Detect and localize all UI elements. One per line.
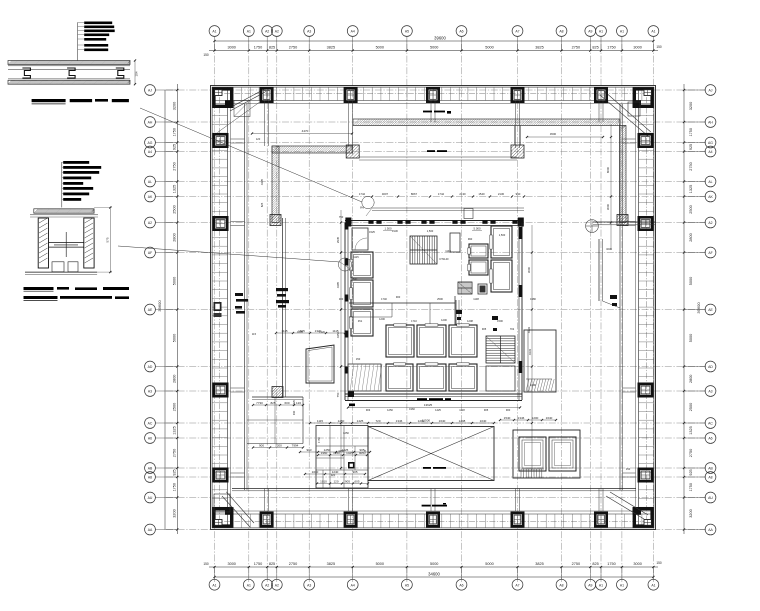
svg-text:2800: 2800 bbox=[689, 233, 693, 241]
svg-text:1208: 1208 bbox=[467, 319, 473, 323]
X-crossed opening bbox=[368, 427, 494, 481]
svg-text:1200: 1200 bbox=[532, 416, 539, 420]
core bottom wall label bars bbox=[417, 398, 427, 400]
left axis bubbles bbox=[155, 89, 177, 91]
svg-text:5000: 5000 bbox=[376, 46, 384, 50]
svg-text:AB: AB bbox=[708, 467, 713, 471]
detail 1 wall section bbox=[8, 61, 130, 65]
svg-text:4435: 4435 bbox=[260, 178, 264, 185]
svg-text:3200: 3200 bbox=[689, 509, 693, 517]
svg-text:825: 825 bbox=[260, 202, 264, 207]
left detail dimension line bbox=[176, 84, 178, 534]
svg-text:2800: 2800 bbox=[689, 375, 693, 383]
svg-text:903: 903 bbox=[366, 408, 371, 412]
svg-text:120: 120 bbox=[333, 479, 338, 483]
svg-text:900: 900 bbox=[396, 295, 401, 299]
detail 2 notes text block bbox=[61, 162, 63, 207]
detail 1 clips bbox=[22, 68, 30, 78]
corner brace SE bbox=[610, 492, 648, 515]
svg-text:5000: 5000 bbox=[430, 562, 438, 566]
svg-text:AU: AU bbox=[148, 496, 153, 500]
svg-text:AH: AH bbox=[708, 121, 713, 125]
svg-text:1138: 1138 bbox=[473, 297, 479, 301]
svg-text:A8: A8 bbox=[148, 476, 152, 480]
detail 2 dim 575 bbox=[109, 207, 111, 272]
svg-text:1200: 1200 bbox=[379, 317, 385, 321]
dim row mid-left bbox=[275, 332, 277, 334]
bottom corridor wall bbox=[232, 488, 636, 490]
elevator bank row A bbox=[386, 325, 414, 357]
svg-text:2750: 2750 bbox=[173, 449, 177, 457]
svg-text:A1: A1 bbox=[651, 30, 655, 34]
svg-text:4607: 4607 bbox=[382, 192, 389, 196]
svg-text:AD: AD bbox=[708, 365, 713, 369]
bottom band columns bbox=[261, 513, 272, 526]
room upper-left of core bbox=[352, 228, 368, 250]
svg-text:3000: 3000 bbox=[633, 46, 641, 50]
bottom detail dimension line bbox=[209, 566, 658, 568]
svg-text:825: 825 bbox=[269, 562, 275, 566]
svg-text:A1: A1 bbox=[620, 30, 624, 34]
svg-text:AH: AH bbox=[148, 121, 153, 125]
svg-text:1250: 1250 bbox=[387, 408, 393, 412]
svg-text:1325: 1325 bbox=[173, 426, 177, 434]
svg-text:925: 925 bbox=[173, 469, 177, 475]
left overall 39600 bbox=[164, 90, 166, 530]
svg-text:1115: 1115 bbox=[317, 419, 324, 423]
svg-text:A2: A2 bbox=[265, 30, 269, 34]
firewall column at A5-line bbox=[511, 145, 524, 158]
svg-text:A6: A6 bbox=[459, 30, 463, 34]
rooms group west bbox=[252, 396, 303, 398]
svg-text:A6: A6 bbox=[459, 583, 463, 587]
vent shafts pair bbox=[469, 244, 488, 258]
svg-text:2500: 2500 bbox=[173, 403, 177, 411]
svg-text:2750: 2750 bbox=[572, 562, 580, 566]
svg-text:1200: 1200 bbox=[275, 443, 282, 447]
detail 1 leader and notes text block bbox=[77, 22, 79, 60]
svg-text:AJ: AJ bbox=[709, 89, 713, 93]
svg-text:2945: 2945 bbox=[336, 236, 340, 243]
svg-text:A1: A1 bbox=[212, 583, 216, 587]
svg-text:1750: 1750 bbox=[173, 128, 177, 136]
svg-text:34600: 34600 bbox=[428, 572, 440, 577]
column connectors from top band bbox=[264, 101, 266, 147]
svg-text:1640: 1640 bbox=[439, 419, 446, 423]
svg-text:2800: 2800 bbox=[173, 375, 177, 383]
wall to right band at AF bbox=[593, 221, 655, 223]
core top wall end blocks bbox=[345, 218, 351, 227]
svg-text:925: 925 bbox=[689, 469, 693, 475]
vertical dim column right of core bbox=[531, 225, 533, 470]
bottom band mullion rungs bbox=[232, 514, 234, 528]
svg-text:903: 903 bbox=[306, 448, 311, 452]
svg-text:1710: 1710 bbox=[411, 319, 417, 323]
svg-text:AL: AL bbox=[148, 180, 152, 184]
firewall right vertical bbox=[620, 126, 627, 223]
perimeter band centerlines bbox=[214, 93, 652, 95]
svg-text:150: 150 bbox=[356, 357, 361, 361]
svg-text:451: 451 bbox=[358, 319, 363, 323]
top band mullion rungs bbox=[232, 87, 234, 100]
detail 2 center mark bbox=[65, 232, 67, 257]
svg-text:5000: 5000 bbox=[485, 46, 493, 50]
svg-text:A6: A6 bbox=[708, 437, 712, 441]
svg-text:AF: AF bbox=[708, 251, 712, 255]
svg-text:AA: AA bbox=[148, 528, 153, 532]
firewall L-wall horizontal bbox=[272, 146, 353, 153]
vertical dim 8000 right area bbox=[610, 124, 612, 250]
room label bars top area bbox=[423, 111, 432, 113]
black marks right duct bbox=[610, 295, 617, 299]
svg-text:A3: A3 bbox=[307, 583, 311, 587]
svg-text:575: 575 bbox=[106, 237, 110, 242]
svg-text:104: 104 bbox=[135, 71, 139, 76]
detail 2 top slab bbox=[34, 209, 94, 213]
svg-text:A7: A7 bbox=[515, 30, 519, 34]
dims lower-left rooms bbox=[317, 454, 319, 456]
core bottom wall bbox=[345, 393, 522, 395]
top detail dimension line bbox=[209, 50, 658, 52]
svg-text:4385: 4385 bbox=[336, 281, 340, 288]
svg-text:920: 920 bbox=[331, 473, 336, 477]
svg-text:A2: A2 bbox=[275, 583, 279, 587]
svg-text:150: 150 bbox=[626, 467, 631, 471]
svg-text:1010: 1010 bbox=[320, 479, 327, 483]
stair ST1 bbox=[410, 236, 437, 264]
svg-text:8000: 8000 bbox=[606, 166, 610, 173]
svg-text:1208: 1208 bbox=[459, 419, 466, 423]
svg-text:905: 905 bbox=[482, 327, 487, 331]
elevator bank row B bbox=[386, 364, 413, 391]
svg-text:A3: A3 bbox=[307, 30, 311, 34]
svg-text:1750: 1750 bbox=[254, 46, 262, 50]
detail 1 caption bbox=[32, 99, 66, 102]
right elevator 2 bbox=[491, 260, 512, 292]
dim 4500 right area bbox=[527, 136, 603, 138]
svg-text:1750: 1750 bbox=[689, 128, 693, 136]
svg-text:3000: 3000 bbox=[227, 562, 235, 566]
svg-text:925: 925 bbox=[689, 144, 693, 150]
svg-text:AG: AG bbox=[708, 141, 713, 145]
svg-text:AK: AK bbox=[708, 195, 713, 199]
svg-text:A4: A4 bbox=[708, 150, 712, 154]
svg-text:5000: 5000 bbox=[689, 334, 693, 342]
svg-text:A1: A1 bbox=[247, 583, 251, 587]
svg-text:720: 720 bbox=[375, 419, 380, 423]
svg-text:1740: 1740 bbox=[381, 297, 387, 301]
hatch strip in right room bbox=[526, 379, 529, 391]
svg-text:A9: A9 bbox=[588, 583, 592, 587]
leader line from detail 2 bbox=[118, 246, 340, 262]
svg-text:4333: 4333 bbox=[527, 326, 531, 333]
left band columns bbox=[214, 134, 227, 146]
right band mullion rungs bbox=[639, 106, 654, 108]
corner room NE bbox=[628, 102, 640, 116]
svg-text:825: 825 bbox=[270, 401, 275, 405]
svg-text:1425: 1425 bbox=[435, 408, 441, 412]
leader balloon top bbox=[362, 196, 374, 208]
svg-text:AB: AB bbox=[148, 467, 153, 471]
top axis bubbles bbox=[214, 36, 216, 50]
svg-text:150: 150 bbox=[203, 562, 209, 566]
svg-text:2750: 2750 bbox=[173, 162, 177, 170]
svg-text:990: 990 bbox=[468, 237, 473, 241]
svg-text:1250: 1250 bbox=[338, 419, 345, 423]
svg-text:150: 150 bbox=[203, 53, 209, 57]
dim row above core bbox=[351, 195, 353, 197]
svg-text:1425: 1425 bbox=[357, 419, 364, 423]
trapezoid shaft bbox=[306, 345, 334, 383]
svg-text:750: 750 bbox=[336, 392, 340, 397]
core top wall bbox=[345, 220, 522, 222]
bottom overall dimension line 34600 bbox=[215, 576, 654, 578]
duct wall right area bbox=[598, 239, 600, 301]
svg-text:A8: A8 bbox=[559, 30, 563, 34]
dim 13625 below core bbox=[348, 407, 520, 409]
left band service block bbox=[214, 302, 222, 311]
machine room block bbox=[513, 430, 580, 478]
svg-text:2800: 2800 bbox=[173, 233, 177, 241]
svg-text:A6: A6 bbox=[148, 437, 152, 441]
svg-text:5000: 5000 bbox=[173, 277, 177, 285]
svg-text:3200: 3200 bbox=[173, 509, 177, 517]
svg-text:2500: 2500 bbox=[689, 403, 693, 411]
svg-text:2500: 2500 bbox=[437, 297, 443, 301]
svg-text:690: 690 bbox=[353, 277, 358, 281]
corner brace NW bbox=[233, 88, 268, 107]
corner room NW bbox=[234, 101, 250, 117]
perimeter band inner edges bbox=[212, 100, 654, 102]
right detail dimension line bbox=[683, 84, 685, 534]
column connectors from bottom band bbox=[264, 489, 266, 512]
corner column SE bbox=[634, 509, 652, 526]
room label bars bottom corridor bbox=[422, 505, 431, 507]
leader line from detail 1 bbox=[140, 108, 362, 202]
svg-text:1640: 1640 bbox=[546, 416, 553, 420]
black marks right side bbox=[456, 310, 462, 314]
svg-text:4456: 4456 bbox=[338, 449, 344, 453]
detail 2 I-beam column bbox=[38, 218, 48, 268]
svg-text:DT1140: DT1140 bbox=[439, 257, 449, 261]
axis target balloon right bbox=[586, 220, 599, 233]
svg-text:905: 905 bbox=[345, 479, 350, 483]
dim 4470 over L-wall bbox=[252, 133, 352, 135]
small dark box bbox=[478, 284, 487, 294]
svg-text:A3: A3 bbox=[708, 390, 712, 394]
svg-text:A2: A2 bbox=[148, 221, 152, 225]
svg-text:940: 940 bbox=[292, 410, 296, 415]
svg-text:AE: AE bbox=[148, 308, 153, 312]
right axis bubbles bbox=[684, 89, 705, 91]
room below ST2 bbox=[486, 366, 515, 391]
svg-text:A5: A5 bbox=[405, 30, 409, 34]
axis grid lines (dash-dot) bbox=[166, 44, 706, 582]
svg-text:1429: 1429 bbox=[292, 400, 296, 406]
svg-text:115: 115 bbox=[252, 332, 257, 336]
svg-text:1540: 1540 bbox=[478, 192, 485, 196]
svg-text:4470: 4470 bbox=[302, 129, 309, 133]
svg-text:A8: A8 bbox=[708, 476, 712, 480]
svg-text:39600: 39600 bbox=[434, 36, 446, 41]
svg-text:5000: 5000 bbox=[689, 277, 693, 285]
svg-text:3200: 3200 bbox=[689, 102, 693, 110]
svg-text:4333: 4333 bbox=[528, 348, 532, 355]
corner column NW bbox=[214, 89, 232, 106]
small shaft right of ST1 bbox=[450, 233, 460, 252]
dim row above X-box bbox=[309, 422, 311, 424]
svg-text:A5: A5 bbox=[405, 583, 409, 587]
svg-text:A1: A1 bbox=[212, 30, 216, 34]
svg-text:1500: 1500 bbox=[497, 319, 503, 323]
machine square 1 bbox=[519, 437, 546, 471]
corner brace SW bbox=[226, 492, 254, 523]
svg-text:1325: 1325 bbox=[689, 426, 693, 434]
column connectors sides bbox=[231, 138, 245, 140]
bottom axis bubbles bbox=[214, 567, 216, 579]
svg-text:1425: 1425 bbox=[346, 451, 353, 455]
svg-text:A8: A8 bbox=[559, 583, 563, 587]
svg-text:AD: AD bbox=[148, 365, 153, 369]
svg-text:13625: 13625 bbox=[424, 403, 433, 407]
svg-text:3000: 3000 bbox=[606, 203, 610, 210]
svg-text:2750: 2750 bbox=[689, 162, 693, 170]
svg-text:A2: A2 bbox=[265, 583, 269, 587]
svg-text:3200: 3200 bbox=[173, 102, 177, 110]
small box under beam bbox=[464, 209, 473, 219]
svg-text:1346: 1346 bbox=[396, 419, 403, 423]
svg-text:A2: A2 bbox=[708, 221, 712, 225]
svg-text:5000: 5000 bbox=[376, 562, 384, 566]
svg-text:5000: 5000 bbox=[173, 334, 177, 342]
svg-text:1750: 1750 bbox=[317, 437, 321, 443]
inner partition wall right bbox=[619, 104, 621, 490]
svg-text:1750: 1750 bbox=[254, 562, 262, 566]
svg-text:2130: 2130 bbox=[498, 192, 505, 196]
svg-text:1605: 1605 bbox=[297, 330, 303, 334]
svg-text:150: 150 bbox=[656, 561, 662, 565]
left shaft stack 3 bbox=[351, 309, 373, 336]
svg-text:1750: 1750 bbox=[607, 46, 615, 50]
right tall room bbox=[524, 330, 556, 392]
svg-text:39600: 39600 bbox=[157, 300, 162, 312]
svg-text:1300: 1300 bbox=[530, 383, 536, 387]
corner column SW bbox=[214, 509, 232, 526]
svg-text:702: 702 bbox=[510, 327, 515, 331]
mini stair bbox=[458, 282, 472, 294]
svg-text:A1: A1 bbox=[620, 583, 624, 587]
svg-text:2130: 2130 bbox=[459, 192, 466, 196]
svg-text:8667: 8667 bbox=[411, 192, 418, 196]
stair ST2 bbox=[486, 336, 515, 363]
detail 2 captions bbox=[24, 287, 54, 290]
svg-text:1140: 1140 bbox=[445, 249, 451, 253]
svg-text:3825: 3825 bbox=[327, 46, 335, 50]
svg-text:1960: 1960 bbox=[409, 407, 415, 411]
svg-text:A1: A1 bbox=[651, 583, 655, 587]
X-box label bars bbox=[423, 467, 431, 469]
svg-text:7994: 7994 bbox=[292, 443, 299, 447]
svg-text:905: 905 bbox=[484, 408, 489, 412]
upper hall floor edge lines bbox=[359, 156, 517, 158]
svg-text:900: 900 bbox=[259, 443, 264, 447]
svg-text:720: 720 bbox=[363, 449, 367, 454]
svg-text:1.500: 1.500 bbox=[385, 227, 392, 231]
svg-text:AC: AC bbox=[148, 422, 153, 426]
svg-text:3825: 3825 bbox=[327, 562, 335, 566]
top band columns bbox=[261, 88, 272, 101]
svg-text:2750: 2750 bbox=[689, 449, 693, 457]
svg-text:AJ: AJ bbox=[148, 89, 152, 93]
svg-text:300: 300 bbox=[339, 297, 344, 301]
svg-text:3230: 3230 bbox=[606, 247, 612, 251]
firewall column at A4 bbox=[346, 145, 359, 158]
svg-text:2130: 2130 bbox=[392, 229, 398, 233]
svg-text:1960: 1960 bbox=[321, 451, 328, 455]
svg-text:1750: 1750 bbox=[607, 562, 615, 566]
svg-text:1115: 1115 bbox=[332, 329, 339, 333]
vertical wall right of open floor bbox=[455, 300, 457, 325]
hatched column near trapezoid bbox=[272, 387, 283, 398]
firewall column lower end of L bbox=[270, 215, 281, 226]
svg-text:1250: 1250 bbox=[343, 431, 349, 435]
svg-text:AK: AK bbox=[148, 195, 153, 199]
svg-text:AA: AA bbox=[708, 528, 713, 532]
svg-text:A1: A1 bbox=[247, 30, 251, 34]
svg-text:1742: 1742 bbox=[359, 192, 366, 196]
machine square 2 bbox=[549, 437, 576, 471]
firewall top horizontal hatched band bbox=[353, 119, 620, 126]
svg-text:3825: 3825 bbox=[535, 46, 543, 50]
svg-text:825: 825 bbox=[592, 46, 598, 50]
inner partition wall left bbox=[244, 104, 246, 490]
vertical dim column left of core bbox=[340, 210, 342, 470]
svg-text:1115: 1115 bbox=[353, 255, 359, 259]
building outer boundary double wall bbox=[211, 86, 656, 530]
svg-text:1010: 1010 bbox=[312, 470, 319, 474]
svg-text:AL: AL bbox=[708, 180, 712, 184]
svg-text:AE: AE bbox=[708, 308, 713, 312]
svg-text:1750: 1750 bbox=[173, 483, 177, 491]
svg-text:1750: 1750 bbox=[689, 483, 693, 491]
svg-text:900: 900 bbox=[506, 408, 511, 412]
detail 2 base bbox=[25, 271, 97, 273]
small column lower-left bbox=[348, 462, 355, 469]
svg-text:605: 605 bbox=[354, 479, 359, 483]
svg-text:AG: AG bbox=[148, 141, 153, 145]
svg-text:A9: A9 bbox=[588, 30, 592, 34]
lower-left room walls bbox=[316, 426, 368, 489]
svg-text:600: 600 bbox=[284, 401, 289, 405]
tick marks core walls bbox=[340, 251, 342, 253]
svg-text:2500: 2500 bbox=[173, 205, 177, 213]
leader balloon left core bbox=[338, 258, 351, 271]
svg-text:905: 905 bbox=[352, 470, 357, 474]
svg-text:3000: 3000 bbox=[227, 46, 235, 50]
svg-text:7730: 7730 bbox=[256, 401, 263, 405]
core left wall bbox=[344, 223, 346, 401]
svg-text:A7: A7 bbox=[515, 583, 519, 587]
svg-text:A3: A3 bbox=[148, 390, 152, 394]
svg-text:11500: 11500 bbox=[422, 418, 430, 422]
svg-text:A1: A1 bbox=[599, 30, 603, 34]
svg-text:39600: 39600 bbox=[696, 302, 701, 314]
svg-text:A4: A4 bbox=[148, 150, 152, 154]
svg-text:AC: AC bbox=[708, 422, 713, 426]
svg-text:5000: 5000 bbox=[485, 562, 493, 566]
svg-text:150: 150 bbox=[656, 45, 662, 49]
svg-text:2750: 2750 bbox=[289, 562, 297, 566]
